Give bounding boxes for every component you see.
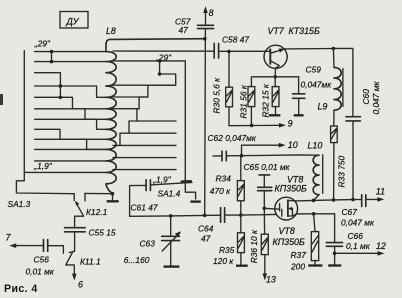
node emitter junction bbox=[273, 75, 277, 79]
wire drain bus bbox=[296, 200, 361, 201]
svg-text:„29": „29" bbox=[34, 39, 51, 49]
ground R32 bbox=[269, 114, 281, 116]
svg-text:6: 6 bbox=[78, 280, 83, 290]
svg-text:R33 750: R33 750 bbox=[337, 155, 347, 187]
svg-text:C66: C66 bbox=[348, 231, 364, 241]
node R34 top junction bbox=[240, 154, 244, 158]
svg-text:L10: L10 bbox=[308, 141, 323, 151]
capacitor C63 variable bbox=[124, 216, 182, 266]
capacitor C56 bbox=[26, 240, 64, 277]
svg-text:0,047 мк: 0,047 мк bbox=[341, 217, 375, 227]
ground coil bottom bbox=[107, 194, 119, 202]
capacitor C62 bbox=[208, 133, 257, 161]
capacitor C66 bbox=[326, 214, 370, 265]
ground C63 bbox=[164, 265, 180, 267]
resistor R34 bbox=[210, 156, 244, 215]
node C60 drain junction bbox=[351, 198, 355, 202]
ground shield bar bbox=[190, 200, 200, 202]
svg-text:КП350Б: КП350Б bbox=[275, 184, 307, 194]
svg-text:C55 15: C55 15 bbox=[89, 227, 116, 237]
svg-text:SA1.3: SA1.3 bbox=[8, 199, 31, 209]
svg-text:0,047 мк: 0,047 мк bbox=[371, 80, 381, 114]
svg-text:VT8: VT8 bbox=[279, 226, 295, 236]
wire row5 left bbox=[35, 96, 61, 98]
svg-text:13: 13 bbox=[266, 274, 276, 284]
pin 11 arrow bbox=[366, 186, 385, 201]
wire L9 to R33 bbox=[333, 110, 335, 126]
wire bottom bus bbox=[130, 214, 276, 216]
svg-text:К11.1: К11.1 bbox=[80, 256, 101, 266]
svg-text:R32 15 к: R32 15 к bbox=[261, 83, 271, 117]
wire row 29 right bbox=[113, 60, 185, 62]
pin 6 arrow bbox=[72, 274, 83, 290]
ground R35 bbox=[236, 265, 248, 267]
node collector junction bbox=[332, 47, 336, 51]
pin 7 arrow bbox=[6, 233, 44, 248]
wire link rows1-2 bbox=[51, 52, 53, 62]
svg-text:КП350Б: КП350Б bbox=[273, 237, 305, 247]
resistor R35 bbox=[213, 215, 244, 266]
node R33 drain junction bbox=[332, 198, 336, 202]
svg-text:ДУ: ДУ bbox=[66, 17, 80, 27]
svg-text:C65 0,01 мк: C65 0,01 мк bbox=[244, 162, 291, 172]
resistor R31 bbox=[239, 77, 255, 126]
svg-text:9: 9 bbox=[288, 118, 293, 128]
node coil top junction bbox=[203, 37, 207, 41]
node gate1 junction bbox=[263, 207, 267, 211]
svg-text:12: 12 bbox=[376, 241, 386, 251]
svg-text:C63: C63 bbox=[140, 239, 156, 249]
relay contact K11.1 bbox=[66, 251, 101, 276]
ground C66 bbox=[328, 264, 341, 266]
node row1 tap junction bbox=[50, 50, 54, 54]
svg-text:VT7: VT7 bbox=[268, 26, 285, 36]
svg-text:C59: C59 bbox=[306, 65, 322, 75]
wire coil stub c bbox=[113, 108, 139, 110]
node R31 bottom junction bbox=[250, 124, 254, 128]
transistor VT8 bbox=[264, 175, 307, 220]
wire emitter bus bbox=[253, 76, 299, 78]
svg-text:КТ315Б: КТ315Б bbox=[289, 26, 320, 36]
wire row9 left stepped bbox=[35, 139, 106, 149]
wire row4 left bbox=[35, 85, 61, 87]
wire row8 left bbox=[35, 129, 106, 139]
node zigzag top junction bbox=[158, 72, 162, 76]
capacitor C59 bbox=[293, 65, 333, 115]
svg-text:470 к: 470 к bbox=[210, 186, 231, 196]
wire row1 left bbox=[35, 51, 106, 53]
wire collector to C60 bbox=[333, 48, 353, 116]
capacitor C55 bbox=[65, 227, 116, 251]
node R30 top junction bbox=[227, 50, 231, 54]
node „29" right junction bbox=[158, 59, 162, 63]
wire row right f bbox=[113, 157, 176, 159]
resistor R30 bbox=[212, 52, 233, 126]
wire tap row top right bbox=[113, 50, 214, 52]
svg-text:Рис. 4: Рис. 4 bbox=[4, 283, 38, 295]
svg-text:L8: L8 bbox=[106, 26, 116, 36]
wire collector VT7 bbox=[284, 48, 333, 50]
node L10 drain junction bbox=[312, 199, 316, 203]
node row4 tap junction bbox=[59, 84, 63, 88]
svg-text:R34: R34 bbox=[216, 174, 232, 184]
wire shield vertical bbox=[185, 61, 195, 199]
svg-text:C56: C56 bbox=[34, 255, 50, 265]
node R34-R35 bus junction bbox=[239, 213, 243, 217]
svg-text:0,047мк: 0,047мк bbox=[301, 80, 333, 90]
switch SA1.3 common wire bbox=[8, 51, 75, 209]
pin 9 arrow bbox=[229, 118, 293, 128]
block label ДУ bbox=[60, 12, 88, 29]
svg-text:C61 47: C61 47 bbox=[131, 202, 158, 212]
capacitor C60 bbox=[346, 80, 381, 199]
capacitor C61 bbox=[130, 180, 192, 217]
node C63 bus junction bbox=[169, 214, 173, 218]
wire row right h bbox=[113, 169, 176, 171]
svg-text:R37: R37 bbox=[291, 250, 307, 260]
resistor R32 bbox=[261, 77, 280, 118]
capacitor C65 bbox=[244, 162, 291, 208]
svg-text:R30 5,6 к: R30 5,6 к bbox=[212, 77, 222, 114]
inductor L10 bbox=[308, 141, 323, 201]
wire row7 left stepped bbox=[35, 119, 106, 129]
svg-text:11: 11 bbox=[376, 186, 385, 196]
wire SA1.3 to K12.1 right bbox=[85, 192, 113, 194]
svg-text:47: 47 bbox=[179, 25, 189, 35]
wire C57 to bus bbox=[204, 29, 207, 216]
wire row6 left stepped bbox=[35, 109, 106, 120]
svg-text:47: 47 bbox=[201, 233, 211, 243]
ground R37 bbox=[308, 264, 322, 266]
node R37 source junction bbox=[312, 212, 316, 216]
wire row11 left bbox=[24, 171, 106, 173]
capacitor C58 bbox=[214, 34, 249, 58]
svg-text:SA1.4: SA1.4 bbox=[158, 189, 181, 199]
svg-text:0,1 мк: 0,1 мк bbox=[346, 241, 371, 251]
contact bar SA1.4 bbox=[181, 180, 192, 183]
wire row5 stepped tail bbox=[60, 97, 105, 109]
svg-text:10: 10 bbox=[288, 140, 298, 150]
wire link rows4-5 bbox=[59, 86, 61, 97]
relay contact K12.1 bbox=[74, 193, 107, 227]
inductor L8 bbox=[106, 26, 205, 193]
pin 13 arrow bbox=[263, 274, 276, 285]
wire row right e bbox=[120, 144, 176, 146]
pin 12 arrow bbox=[333, 241, 386, 256]
svg-text:200: 200 bbox=[290, 261, 305, 271]
wire row right c bbox=[137, 120, 176, 122]
pin 10 arrow bbox=[242, 140, 298, 156]
svg-text:R36 10 к: R36 10 к bbox=[249, 229, 259, 263]
pin 8 arrow bbox=[203, 6, 213, 25]
svg-text:C67: C67 bbox=[342, 207, 358, 217]
wire C58 to base VT7 bbox=[219, 50, 270, 52]
wire row3 left stepped bbox=[35, 73, 106, 98]
wire R33 to drain bus bbox=[333, 143, 335, 200]
node C57-line bus junction bbox=[203, 214, 207, 218]
svg-text:C60: C60 bbox=[361, 89, 371, 105]
svg-text:„1,9": „1,9" bbox=[152, 175, 171, 185]
svg-text:R31 56 к: R31 56 к bbox=[239, 84, 249, 118]
wire row2 left bbox=[35, 61, 106, 63]
capacitor C67 bbox=[341, 195, 375, 228]
capacitor C64 bbox=[198, 208, 225, 244]
wire coil stub a bbox=[113, 84, 176, 86]
wire source bus bbox=[297, 213, 335, 215]
node coil bottom junction bbox=[111, 192, 115, 196]
node row2 tap junction bbox=[50, 60, 54, 64]
wire zigzag right bbox=[113, 74, 176, 145]
svg-text:L9: L9 bbox=[318, 102, 328, 112]
resistor R37 bbox=[290, 214, 319, 271]
svg-text:C58 47: C58 47 bbox=[222, 34, 249, 44]
svg-text:„1,9": „1,9" bbox=[33, 161, 52, 171]
svg-text:120 к: 120 к bbox=[213, 256, 234, 266]
wire C62 to L10 bbox=[226, 154, 319, 157]
svg-text:6...160: 6...160 bbox=[124, 255, 150, 265]
svg-text:C64: C64 bbox=[198, 224, 214, 234]
inductor L9 bbox=[318, 49, 343, 112]
resistor R33 bbox=[331, 126, 347, 188]
wire row10b left bbox=[35, 160, 106, 162]
wire row10 left bbox=[35, 148, 106, 150]
svg-text:8: 8 bbox=[209, 8, 214, 18]
wire coil stub b bbox=[113, 96, 148, 98]
ground C59 bbox=[294, 114, 304, 116]
svg-text:0,01 мк: 0,01 мк bbox=[26, 267, 55, 277]
svg-text:C62 0,047мк: C62 0,047мк bbox=[208, 133, 257, 143]
resistor R36 bbox=[249, 208, 268, 275]
svg-text:R35: R35 bbox=[219, 245, 235, 255]
edge artifact bbox=[0, 94, 3, 105]
wire link 29 right bbox=[159, 61, 161, 74]
transistor VT7 bbox=[264, 26, 320, 77]
wire row right d bbox=[129, 132, 176, 134]
capacitor C57 bbox=[175, 16, 214, 35]
svg-text:К12.1: К12.1 bbox=[86, 207, 107, 217]
node row5 tap junction bbox=[59, 96, 63, 100]
